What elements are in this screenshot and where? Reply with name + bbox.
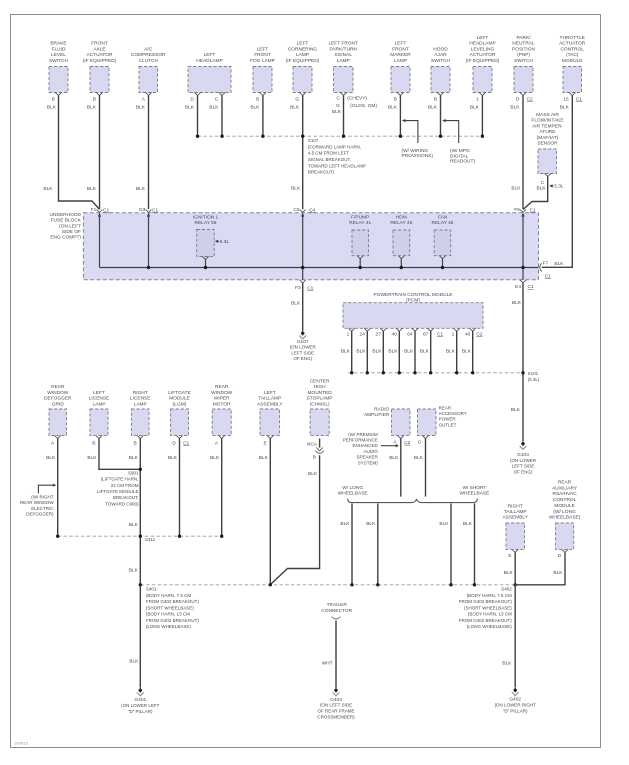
svg-text:ACTUATOR: ACTUATOR bbox=[87, 52, 113, 58]
svg-text:5.3L: 5.3L bbox=[220, 239, 230, 245]
svg-text:(5.3L): (5.3L) bbox=[528, 377, 540, 382]
svg-text:BLK: BLK bbox=[129, 455, 139, 461]
wire rear auxiliary module to S402 bbox=[515, 552, 565, 585]
svg-text:D: D bbox=[190, 96, 194, 102]
svg-text:F/PUMP: F/PUMP bbox=[351, 214, 369, 220]
svg-text:B: B bbox=[92, 440, 95, 446]
svg-text:FRONT: FRONT bbox=[254, 52, 271, 58]
svg-text:BLK: BLK bbox=[462, 349, 472, 355]
svg-text:D3: D3 bbox=[139, 207, 145, 213]
svg-text:C4: C4 bbox=[309, 207, 315, 213]
wire MAF sensor to F6 bbox=[523, 177, 548, 210]
ground G403 bbox=[317, 688, 355, 720]
svg-text:OF REAR FRAME: OF REAR FRAME bbox=[317, 709, 354, 714]
svg-text:AXLE: AXLE bbox=[93, 46, 105, 52]
svg-text:FAN: FAN bbox=[438, 214, 448, 220]
svg-text:S402: S402 bbox=[501, 586, 512, 591]
svg-text:BLK: BLK bbox=[136, 105, 146, 111]
svg-text:C1: C1 bbox=[307, 285, 313, 291]
svg-text:AMPLIFIER: AMPLIFIER bbox=[364, 412, 390, 418]
left license lamp bbox=[89, 390, 110, 447]
svg-text:C1: C1 bbox=[530, 207, 536, 213]
rear window wiper motor bbox=[211, 384, 233, 446]
svg-text:BLK: BLK bbox=[129, 659, 139, 665]
wire PNP switch to F6 bbox=[510, 95, 523, 209]
svg-text:RIGHT: RIGHT bbox=[133, 390, 148, 396]
svg-text:SIDE OF: SIDE OF bbox=[62, 229, 81, 235]
svg-text:LAMP: LAMP bbox=[92, 401, 105, 407]
wire CHMSL to S401 bbox=[271, 439, 320, 585]
svg-text:5.3L: 5.3L bbox=[554, 184, 564, 190]
svg-text:BLK: BLK bbox=[511, 186, 521, 192]
svg-text:LAMP: LAMP bbox=[394, 58, 407, 64]
svg-text:CONNECTOR: CONNECTOR bbox=[321, 608, 352, 614]
svg-text:RADIO: RADIO bbox=[374, 407, 389, 413]
ground G103 bbox=[510, 441, 537, 474]
svg-text:(PNP): (PNP) bbox=[517, 52, 530, 58]
svg-text:B: B bbox=[434, 96, 437, 102]
svg-text:1: 1 bbox=[476, 96, 479, 102]
node S402 label bbox=[459, 586, 513, 629]
park/neutral position switch bbox=[512, 35, 535, 102]
pin F6 C1 entry bbox=[514, 207, 536, 216]
svg-text:NEUTRAL: NEUTRAL bbox=[512, 41, 535, 47]
svg-text:(ON LOWER LEFT: (ON LOWER LEFT bbox=[121, 703, 160, 708]
svg-text:WHEELBASE: WHEELBASE bbox=[338, 491, 368, 497]
svg-text:ENHANCED: ENHANCED bbox=[353, 443, 379, 448]
svg-text:BLK: BLK bbox=[136, 186, 146, 192]
svg-text:TOWARD C900): TOWARD C900) bbox=[105, 501, 139, 506]
svg-text:BLK: BLK bbox=[129, 522, 139, 528]
svg-text:1: 1 bbox=[347, 331, 350, 337]
svg-text:(SHORT WHEELBASE): (SHORT WHEELBASE) bbox=[464, 605, 512, 610]
ground G401 bbox=[121, 688, 160, 714]
wire short-wheelbase branch 1 to S402 bbox=[439, 504, 451, 585]
svg-text:(TAC): (TAC) bbox=[566, 52, 579, 58]
svg-text:(LONG WHEELBASE): (LONG WHEELBASE) bbox=[467, 624, 513, 629]
svg-text:C1: C1 bbox=[183, 440, 189, 446]
svg-text:(PCM): (PCM) bbox=[406, 297, 420, 303]
svg-text:(LIFTGATE HARN,: (LIFTGATE HARN, bbox=[101, 477, 139, 482]
svg-text:SENSOR: SENSOR bbox=[537, 141, 558, 147]
wire E4 to S101 and ground G103 bbox=[511, 283, 523, 441]
svg-text:TAILLAMP: TAILLAMP bbox=[258, 396, 281, 402]
svg-text:RELAY 45: RELAY 45 bbox=[432, 220, 454, 226]
svg-text:E4: E4 bbox=[515, 284, 521, 290]
svg-text:WINDOW: WINDOW bbox=[211, 390, 233, 396]
svg-text:(SHORT WHEELBASE): (SHORT WHEELBASE) bbox=[146, 605, 194, 610]
svg-text:64: 64 bbox=[407, 331, 413, 337]
wire TAC module to F7 bbox=[542, 95, 573, 267]
callout w/ MPG digital readout bbox=[442, 119, 475, 165]
svg-text:REAR: REAR bbox=[439, 405, 452, 410]
svg-text:MODULE: MODULE bbox=[169, 396, 190, 402]
svg-text:C1: C1 bbox=[103, 207, 109, 213]
svg-text:(ON LOWER: (ON LOWER bbox=[510, 458, 537, 463]
wire defogger to S311 bbox=[46, 439, 58, 537]
svg-text:C: C bbox=[418, 440, 422, 446]
node S101 label bbox=[528, 371, 540, 382]
svg-text:(ON LOWER RIGHT: (ON LOWER RIGHT bbox=[495, 703, 537, 708]
svg-text:AUDIO: AUDIO bbox=[364, 449, 379, 454]
rear auxiliary RSA/HVAC control module bbox=[549, 480, 581, 560]
svg-text:HEADLAMP: HEADLAMP bbox=[196, 58, 222, 64]
svg-text:BLK: BLK bbox=[46, 455, 56, 461]
svg-text:ASSEMBLY: ASSEMBLY bbox=[502, 515, 528, 521]
svg-text:BLK: BLK bbox=[463, 521, 473, 527]
svg-text:S311: S311 bbox=[145, 537, 156, 542]
svg-text:(BODY HARN, 7.5 CM: (BODY HARN, 7.5 CM bbox=[467, 593, 512, 598]
svg-text:TOWARD LEFT HEADLAMP: TOWARD LEFT HEADLAMP bbox=[308, 163, 366, 168]
svg-text:C1: C1 bbox=[437, 331, 443, 337]
svg-text:B: B bbox=[52, 96, 55, 102]
relay: ignition 1 relay 58 bbox=[193, 214, 219, 267]
svg-text:C2: C2 bbox=[476, 331, 482, 337]
svg-text:GRID: GRID bbox=[52, 401, 65, 407]
wire short-wheelbase branch 2 to S402 bbox=[463, 504, 475, 585]
svg-text:BLK: BLK bbox=[185, 105, 195, 111]
svg-text:LEFT FRONT: LEFT FRONT bbox=[328, 41, 358, 47]
svg-text:THROTTLE: THROTTLE bbox=[560, 35, 585, 41]
svg-text:BLK: BLK bbox=[209, 105, 219, 111]
svg-text:RELAY 58: RELAY 58 bbox=[195, 220, 217, 226]
svg-text:WHEELBASE): WHEELBASE) bbox=[549, 515, 581, 521]
svg-text:BLK: BLK bbox=[332, 109, 342, 115]
underhood fuse block bbox=[50, 212, 539, 280]
svg-text:(ON LEFT SIDE: (ON LEFT SIDE bbox=[320, 703, 352, 708]
svg-text:(CHMSL): (CHMSL) bbox=[310, 401, 330, 407]
svg-text:BLK: BLK bbox=[446, 349, 456, 355]
left front park/turn signal lamp bbox=[328, 41, 358, 96]
svg-text:OF ENG): OF ENG) bbox=[514, 469, 533, 474]
label w/ long wheelbase bbox=[338, 485, 368, 497]
svg-text:DEFOGGER: DEFOGGER bbox=[44, 396, 72, 402]
svg-text:(ON LOWER: (ON LOWER bbox=[290, 345, 317, 350]
ground G107 bbox=[290, 331, 317, 361]
svg-text:F7: F7 bbox=[543, 260, 549, 266]
rear window defogger grid bbox=[44, 384, 72, 446]
svg-text:(W/ RIGHT: (W/ RIGHT bbox=[31, 494, 53, 499]
svg-text:AJAR: AJAR bbox=[434, 52, 447, 58]
node S107 label bbox=[308, 138, 366, 175]
svg-text:C: C bbox=[336, 95, 340, 101]
wire long-wheelbase branch 2 to S401 bbox=[366, 504, 378, 585]
svg-text:CORNERING: CORNERING bbox=[288, 46, 318, 52]
svg-text:F1: F1 bbox=[91, 207, 97, 213]
wire long-wheelbase branch 1 to S401 bbox=[340, 504, 352, 585]
svg-text:(IF EQUIPPED): (IF EQUIPPED) bbox=[466, 58, 500, 64]
splice S311 dashed bus bbox=[56, 535, 223, 538]
svg-text:READOUT): READOUT) bbox=[450, 159, 475, 165]
svg-text:B: B bbox=[313, 455, 316, 461]
svg-text:BLK: BLK bbox=[388, 349, 398, 355]
wire radio amplifier to wheelbase brace bbox=[389, 439, 401, 497]
svg-text:BLK: BLK bbox=[428, 105, 438, 111]
svg-text:C1: C1 bbox=[545, 273, 551, 279]
wire fog lamp to S107 bbox=[250, 95, 263, 136]
powertrain control module (PCM) bbox=[343, 292, 483, 328]
svg-text:C: C bbox=[215, 96, 219, 102]
svg-text:FROM G402 BREAKOUT): FROM G402 BREAKOUT) bbox=[459, 618, 513, 623]
wire right taillamp to S402 and G402 bbox=[502, 552, 515, 687]
svg-text:(BODY HARN, 7.5 CM: (BODY HARN, 7.5 CM bbox=[146, 593, 191, 598]
liftgate module (LGM) bbox=[168, 390, 191, 447]
svg-text:LAMP: LAMP bbox=[134, 401, 147, 407]
splice S401/S402 dashed bus bbox=[139, 583, 517, 586]
pin F7 C1 right edge connector bbox=[540, 260, 565, 279]
svg-text:(W/ LONG: (W/ LONG bbox=[553, 509, 576, 515]
svg-text:SWITCH: SWITCH bbox=[49, 58, 68, 64]
svg-text:SIGNAL: SIGNAL bbox=[334, 52, 352, 58]
svg-text:F3: F3 bbox=[295, 285, 301, 291]
PCM ground wires to S101 bbox=[341, 331, 473, 373]
node S401 label bbox=[146, 586, 200, 629]
wire park/turn lamp to S107 bbox=[332, 95, 344, 136]
svg-text:BLK: BLK bbox=[87, 186, 97, 192]
svg-text:(BODY HARN, 13 CM: (BODY HARN, 13 CM bbox=[468, 612, 512, 617]
wire headlamp pin C to S107 bbox=[209, 95, 222, 136]
svg-text:15: 15 bbox=[563, 96, 569, 102]
left cornering lamp bbox=[286, 41, 320, 103]
svg-text:BLK: BLK bbox=[404, 349, 414, 355]
svg-text:DEFOGGER): DEFOGGER) bbox=[26, 512, 54, 517]
svg-text:BLK: BLK bbox=[504, 570, 514, 576]
svg-text:(IF EQUIPPED): (IF EQUIPPED) bbox=[286, 58, 320, 64]
wire right license lamp through S901/S311/S401 to G401 bbox=[129, 439, 141, 688]
svg-text:REAR: REAR bbox=[558, 480, 572, 486]
svg-text:LEFT: LEFT bbox=[257, 46, 269, 52]
svg-text:C1: C1 bbox=[576, 96, 582, 102]
svg-text:BLK: BLK bbox=[470, 105, 480, 111]
throttle actuator control module bbox=[559, 35, 585, 102]
svg-text:BLK: BLK bbox=[553, 570, 563, 576]
svg-text:1508r15: 1508r15 bbox=[14, 741, 28, 745]
pin C5 C4 entry bbox=[293, 207, 315, 216]
svg-text:(W/ PREMIUM: (W/ PREMIUM bbox=[348, 432, 378, 437]
svg-text:B: B bbox=[256, 96, 259, 102]
svg-text:ACCESSORY: ACCESSORY bbox=[439, 411, 467, 416]
rear accessory power outlet bbox=[418, 405, 467, 445]
svg-text:BLK: BLK bbox=[47, 105, 57, 111]
svg-text:WHEELBASE: WHEELBASE bbox=[459, 491, 489, 497]
svg-text:BLK: BLK bbox=[420, 349, 430, 355]
splice S107 dashed bus bbox=[196, 135, 484, 138]
svg-text:FROM G402 BREAKOUT): FROM G402 BREAKOUT) bbox=[459, 599, 513, 604]
svg-text:RELAY 46: RELAY 46 bbox=[390, 220, 412, 226]
svg-text:COMPRESSOR: COMPRESSOR bbox=[131, 52, 166, 58]
wire left license lamp to S901 bbox=[87, 439, 140, 470]
svg-text:RIGHT: RIGHT bbox=[508, 504, 523, 510]
svg-text:OUTLET: OUTLET bbox=[439, 422, 457, 427]
A/C compressor clutch bbox=[131, 46, 166, 102]
svg-text:LEVELING: LEVELING bbox=[471, 46, 495, 52]
svg-text:BREAKOUT,: BREAKOUT, bbox=[113, 495, 139, 500]
svg-text:1: 1 bbox=[452, 331, 455, 337]
svg-text:C2: C2 bbox=[404, 440, 410, 446]
left front marker lamp bbox=[390, 41, 411, 103]
splice S101 dashed bus bbox=[348, 371, 525, 374]
svg-text:LEFT: LEFT bbox=[264, 390, 276, 396]
svg-text:BLK: BLK bbox=[439, 521, 449, 527]
svg-text:WINDOW: WINDOW bbox=[47, 390, 69, 396]
svg-text:PARK/TURN: PARK/TURN bbox=[330, 46, 358, 52]
svg-text:BLK: BLK bbox=[388, 105, 398, 111]
svg-text:BLK: BLK bbox=[512, 300, 522, 306]
svg-text:BLK: BLK bbox=[560, 105, 570, 111]
svg-text:(LONG WHEELBASE): (LONG WHEELBASE) bbox=[146, 624, 192, 629]
svg-text:BLK: BLK bbox=[87, 455, 97, 461]
pin D3 C1 entry bbox=[139, 207, 158, 216]
right taillamp assembly bbox=[502, 504, 528, 560]
svg-text:MOTOR: MOTOR bbox=[213, 401, 231, 407]
svg-text:C1: C1 bbox=[528, 284, 534, 290]
svg-text:“D” PILLAR): “D” PILLAR) bbox=[128, 709, 153, 714]
callout w/ wiring provisions bbox=[402, 119, 434, 159]
svg-text:HDM: HDM bbox=[396, 214, 407, 220]
drawing id bbox=[14, 741, 28, 745]
svg-text:A/C: A/C bbox=[144, 46, 153, 52]
svg-text:LEFT: LEFT bbox=[93, 390, 105, 396]
svg-text:(ON LEFT: (ON LEFT bbox=[59, 223, 81, 229]
svg-text:C: C bbox=[541, 180, 545, 186]
svg-text:WHT: WHT bbox=[322, 660, 333, 666]
svg-text:D: D bbox=[172, 440, 176, 446]
callout w/ premium performance audio bbox=[343, 432, 399, 466]
svg-text:LAMP: LAMP bbox=[296, 52, 309, 58]
wire headlamp pin D to S107 bbox=[185, 95, 198, 136]
svg-text:(IF EQUIPPED): (IF EQUIPPED) bbox=[83, 58, 117, 64]
svg-text:CROSSMEMBER): CROSSMEMBER) bbox=[317, 714, 355, 719]
svg-text:MODULE: MODULE bbox=[562, 58, 583, 64]
wire liftgate module to S311 bbox=[168, 439, 180, 537]
svg-text:BLK: BLK bbox=[366, 521, 376, 527]
svg-text:S101: S101 bbox=[528, 371, 539, 376]
CHMSL inline connector B bbox=[313, 448, 324, 461]
svg-text:BLK: BLK bbox=[168, 455, 178, 461]
wire F1 internal drop bbox=[99, 216, 101, 267]
svg-text:(W/ MPG: (W/ MPG bbox=[450, 148, 470, 154]
svg-text:BLK: BLK bbox=[502, 661, 512, 667]
svg-text:(CHEVY): (CHEVY) bbox=[347, 95, 367, 101]
svg-text:PROVISIONS): PROVISIONS) bbox=[402, 153, 434, 159]
wire D3 internal drop bbox=[148, 216, 150, 267]
svg-text:ACTUATOR: ACTUATOR bbox=[470, 52, 496, 58]
junction S901 bbox=[139, 468, 142, 471]
svg-text:FOG LAMP: FOG LAMP bbox=[250, 58, 275, 64]
svg-text:22 CM FROM: 22 CM FROM bbox=[111, 483, 139, 488]
svg-text:ENG COMPT): ENG COMPT) bbox=[50, 235, 81, 241]
svg-text:24: 24 bbox=[360, 331, 366, 337]
svg-text:BREAKOUT): BREAKOUT) bbox=[308, 170, 335, 175]
center high mounted stoplamp (CHMSL) bbox=[307, 379, 333, 448]
svg-text:D: D bbox=[558, 553, 562, 559]
right license lamp bbox=[130, 390, 151, 447]
relay: fan relay 45 bbox=[432, 214, 454, 267]
wire F3 to ground G107 bbox=[291, 283, 303, 331]
svg-text:(FORWARD LAMP HARN,: (FORWARD LAMP HARN, bbox=[308, 144, 361, 149]
svg-text:BLK: BLK bbox=[372, 349, 382, 355]
svg-text:RSA/HVAC: RSA/HVAC bbox=[553, 491, 578, 497]
pin F1 C1 entry bbox=[91, 207, 110, 216]
wire C5 to F3 through block bbox=[302, 216, 304, 280]
wire brake fluid to F1 bbox=[43, 95, 99, 209]
svg-text:BLK: BLK bbox=[129, 567, 139, 573]
svg-text:DIGITAL: DIGITAL bbox=[450, 153, 469, 159]
left headlamp bbox=[188, 52, 231, 102]
pin E4 C1 exit bbox=[515, 280, 534, 290]
svg-text:CLUTCH: CLUTCH bbox=[138, 58, 158, 64]
hood ajar switch bbox=[431, 46, 450, 102]
pin F3 C1 exit bbox=[295, 280, 314, 291]
svg-text:LICENSE: LICENSE bbox=[130, 396, 151, 402]
front axle actuator bbox=[83, 41, 117, 103]
wire rear wiper to S311 bbox=[210, 439, 222, 537]
svg-text:POSITION: POSITION bbox=[512, 46, 535, 52]
svg-text:LIFTGATE MODULE: LIFTGATE MODULE bbox=[97, 489, 139, 494]
svg-text:MOUNTED: MOUNTED bbox=[307, 390, 332, 396]
svg-text:FRONT: FRONT bbox=[392, 46, 409, 52]
ground G402 bbox=[495, 688, 537, 714]
value 5.3L arrow at MAF bbox=[549, 184, 564, 190]
PCM pin connectors bbox=[347, 328, 483, 337]
left headlamp leveling actuator bbox=[466, 35, 500, 102]
svg-text:CONTROL: CONTROL bbox=[560, 46, 584, 52]
svg-text:BRAKE: BRAKE bbox=[50, 41, 66, 47]
svg-text:HEADLAMP: HEADLAMP bbox=[469, 41, 495, 47]
brake fluid level switch bbox=[49, 41, 68, 103]
svg-text:LAMP: LAMP bbox=[337, 58, 350, 64]
svg-text:SYSTEM): SYSTEM) bbox=[358, 460, 379, 465]
svg-text:RELAY 41: RELAY 41 bbox=[349, 220, 371, 226]
wire hood ajar to S107 bbox=[428, 95, 441, 136]
svg-text:AUXILIARY: AUXILIARY bbox=[552, 485, 578, 491]
svg-text:67: 67 bbox=[423, 331, 429, 337]
wire trailer connector to G403 bbox=[322, 621, 336, 688]
wire A/C clutch to D3 bbox=[136, 95, 149, 209]
svg-text:(LGM): (LGM) bbox=[173, 401, 187, 407]
svg-text:G: G bbox=[295, 96, 299, 102]
svg-text:LIFTGATE: LIFTGATE bbox=[168, 390, 191, 396]
wire leveling actuator to S107 bbox=[470, 95, 483, 136]
svg-text:B: B bbox=[133, 440, 136, 446]
junctions on internal bus bbox=[147, 266, 525, 269]
svg-text:FLUID: FLUID bbox=[52, 46, 66, 52]
svg-text:FRONT: FRONT bbox=[91, 41, 108, 47]
wire cornering lamp through S107 to C5 bbox=[290, 95, 303, 209]
svg-text:BLK: BLK bbox=[554, 261, 564, 267]
svg-text:F6: F6 bbox=[514, 207, 520, 213]
label w/ short wheelbase bbox=[459, 485, 489, 497]
svg-text:W/ LONG: W/ LONG bbox=[342, 485, 363, 491]
svg-text:BLK: BLK bbox=[510, 105, 520, 111]
svg-text:PARK/: PARK/ bbox=[516, 35, 531, 41]
svg-text:LEFT: LEFT bbox=[204, 52, 216, 58]
svg-text:CONTROL: CONTROL bbox=[553, 497, 577, 503]
svg-text:LEFT: LEFT bbox=[297, 41, 309, 47]
svg-text:SIGNAL BREAKOUT,: SIGNAL BREAKOUT, bbox=[308, 157, 351, 162]
svg-text:LEFT: LEFT bbox=[395, 41, 407, 47]
svg-text:W/ SHORT: W/ SHORT bbox=[462, 485, 486, 491]
svg-text:BLK: BLK bbox=[291, 301, 301, 307]
svg-text:POWER: POWER bbox=[439, 417, 457, 422]
svg-text:HOOD: HOOD bbox=[433, 46, 448, 52]
svg-text:REAR: REAR bbox=[215, 384, 229, 390]
svg-text:BLK: BLK bbox=[341, 349, 351, 355]
svg-text:FLOW/INTAKE: FLOW/INTAKE bbox=[531, 118, 563, 124]
svg-text:BLK: BLK bbox=[259, 455, 269, 461]
svg-text:27: 27 bbox=[376, 331, 382, 337]
svg-text:REAR WINDOW: REAR WINDOW bbox=[20, 500, 54, 505]
